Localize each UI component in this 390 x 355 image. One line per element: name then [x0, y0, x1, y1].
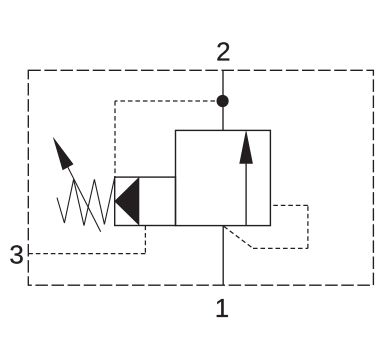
adjustment arrow head (filled, pointing up-left): [53, 137, 74, 171]
pilot valve box: [115, 177, 176, 225]
wire: pressure sensing pilot line (dashed), vertical rise: [307, 205, 309, 248]
svg-text:1: 1: [215, 293, 229, 323]
spring (zigzag): [57, 177, 115, 225]
wire: pilot line (dashed) vertical drop to pilot valve box: [114, 101, 116, 177]
wire: pressure sensing pilot line (dashed), bottom horizontal run: [253, 247, 308, 249]
main valve box U1: [176, 130, 271, 225]
enclosure boundary (dashed component envelope): [28, 70, 373, 285]
wire: drain line to port 3, vertical dashed below pilot valve: [144, 226, 146, 254]
adjustment arrow shaft (diagonal through spring): [68, 167, 101, 232]
wire: port 2 line from boundary to main valve box: [222, 70, 224, 130]
wire: pilot line (dashed) from junction dot to pilot valve, horizontal run: [115, 100, 223, 102]
flow arrow head (filled, pointing up): [239, 130, 253, 164]
wire: pressure sensing pilot line (dashed), diagonal from port 1 junction: [224, 226, 253, 248]
wire: pressure sensing pilot line (dashed), top run into main valve box: [270, 204, 308, 206]
pilot poppet triangle (filled, pointing left): [115, 178, 139, 225]
svg-text:2: 2: [216, 37, 230, 67]
flow arrow inside main valve box (line): [245, 164, 247, 226]
wire: drain line to port 3, horizontal dashed run to boundary: [28, 253, 145, 255]
svg-text:3: 3: [9, 240, 23, 270]
node: junction dot on port 2 line: [217, 95, 229, 107]
wire: port 1 line from main valve box to boundary: [222, 226, 224, 286]
